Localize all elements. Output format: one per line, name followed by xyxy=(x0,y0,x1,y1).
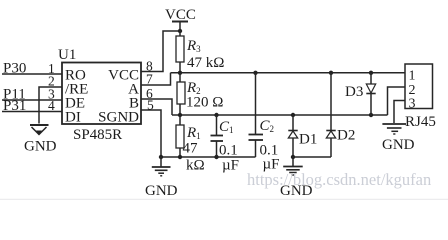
svg-text:kΩ: kΩ xyxy=(186,158,205,174)
svg-text:C2: C2 xyxy=(260,118,275,134)
svg-text:C1: C1 xyxy=(219,119,234,135)
svg-text:µF: µF xyxy=(222,158,239,174)
wire B line xyxy=(172,114,388,116)
wire RJ45 pin2 xyxy=(388,87,406,115)
svg-text:R1: R1 xyxy=(186,125,201,141)
node P11 label wire xyxy=(2,99,62,101)
ground (RJ45) xyxy=(382,124,406,134)
svg-text:47: 47 xyxy=(183,141,199,157)
node A-D3 junction xyxy=(369,71,373,75)
VCC power symbol xyxy=(172,22,188,32)
svg-text:U1: U1 xyxy=(58,47,76,63)
capacitor C1 xyxy=(211,115,224,157)
wire pin8 to VCC xyxy=(141,31,180,72)
op-amp U1 SP485R chip body xyxy=(62,63,141,125)
svg-text:SGND: SGND xyxy=(98,110,139,126)
capacitor C2 xyxy=(249,73,264,157)
wire RJ45 pin3 to ground xyxy=(394,101,405,124)
node A-R3 junction xyxy=(178,71,182,75)
node P31 label wire xyxy=(2,111,62,113)
ground (left, /RE) xyxy=(30,125,49,135)
svg-text:GND: GND xyxy=(145,183,178,199)
node B-D3 junction xyxy=(369,113,373,117)
svg-text:3: 3 xyxy=(409,97,416,112)
node VCC junction xyxy=(178,29,182,33)
svg-text:120 Ω: 120 Ω xyxy=(186,95,223,111)
node gnd-R1 junction xyxy=(178,155,182,159)
svg-text:DI: DI xyxy=(65,110,81,126)
svg-text:0.1: 0.1 xyxy=(219,143,238,159)
ground (D1 D2) xyxy=(283,157,303,175)
svg-text:D1: D1 xyxy=(299,132,317,148)
resistor R1 xyxy=(176,115,184,157)
svg-text:D2: D2 xyxy=(337,128,355,144)
resistor R3 xyxy=(176,31,184,73)
svg-text:GND: GND xyxy=(24,139,57,155)
wire bottom edge artifact xyxy=(0,198,448,200)
node P30 label wire xyxy=(2,73,62,75)
wire A line xyxy=(171,72,406,74)
svg-text:R3: R3 xyxy=(186,38,201,54)
node B-D1 junction xyxy=(291,113,295,117)
wire pin7 jog up to A line xyxy=(141,73,171,85)
svg-text:VCC: VCC xyxy=(165,7,196,23)
svg-text:https://blog.csdn.net/kgufan: https://blog.csdn.net/kgufan xyxy=(247,170,431,189)
wire pin2 to ground xyxy=(39,87,62,124)
node gnd-D1 junction xyxy=(291,155,295,159)
ground (pin5 SGND) xyxy=(152,157,171,176)
node B-C1 junction xyxy=(214,113,218,117)
svg-text:4: 4 xyxy=(48,98,55,113)
svg-text:D3: D3 xyxy=(345,84,363,100)
diode D1 xyxy=(288,115,297,157)
svg-text:7: 7 xyxy=(146,72,153,87)
svg-text:5: 5 xyxy=(147,98,154,113)
svg-text:GND: GND xyxy=(382,137,415,153)
node gnd-C1 junction xyxy=(214,155,218,159)
node B-R2 junction xyxy=(178,113,182,117)
wire pin6 jog down to B line xyxy=(141,99,172,115)
wire pin5 SGND down xyxy=(141,110,161,157)
svg-text:SP485R: SP485R xyxy=(73,127,122,143)
node A-D2 junction xyxy=(329,71,333,75)
svg-text:1: 1 xyxy=(409,69,416,84)
svg-text:RJ45: RJ45 xyxy=(405,114,436,130)
diode D2 xyxy=(326,73,335,157)
wire D1-D2 ground rail xyxy=(293,156,331,158)
diode D3 xyxy=(366,73,375,115)
svg-text:P30: P30 xyxy=(3,61,26,77)
node A-C2 junction xyxy=(253,71,257,75)
svg-text:P31: P31 xyxy=(3,98,26,114)
resistor R2 xyxy=(177,73,185,115)
node gnd-pin5 junction xyxy=(159,155,163,159)
svg-text:47 kΩ: 47 kΩ xyxy=(187,55,224,71)
RJ45 connector body xyxy=(405,64,433,109)
wire ground rail left xyxy=(161,156,256,158)
